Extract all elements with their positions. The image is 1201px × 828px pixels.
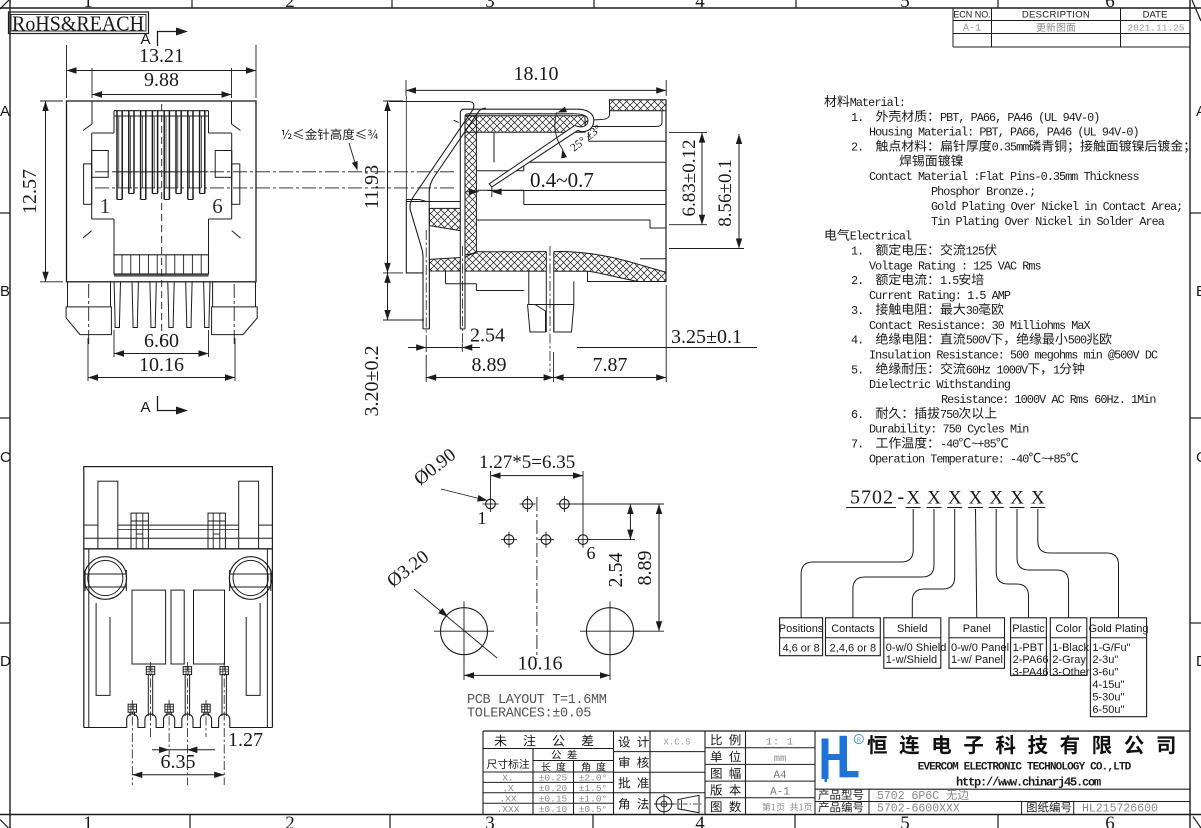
dimension 13.21 xyxy=(66,45,68,98)
svg-text:3-PA46: 3-PA46 xyxy=(1013,667,1049,679)
svg-text:3-6u": 3-6u" xyxy=(1092,667,1118,679)
svg-text:2.54: 2.54 xyxy=(470,325,505,347)
svg-text:Insulation Resistance: 500 meg: Insulation Resistance: 500 megohms min @… xyxy=(869,348,1158,362)
svg-text:±0.10: ±0.10 xyxy=(539,804,568,815)
svg-text:7.87: 7.87 xyxy=(593,354,628,376)
svg-text:13.21: 13.21 xyxy=(139,45,184,67)
front view lower comb ladder xyxy=(114,255,209,274)
dimension 6.83±0.12 xyxy=(669,132,707,134)
svg-text:Contacts: Contacts xyxy=(831,623,875,635)
projection symbol xyxy=(656,796,672,812)
svg-text:3.25±0.1: 3.25±0.1 xyxy=(671,326,742,348)
ECN row text 更新图面 xyxy=(1036,23,1045,32)
svg-text:Gold Plating Over Nickel in Co: Gold Plating Over Nickel in Contact Area… xyxy=(931,200,1182,214)
contact U bend inner and spring xyxy=(489,114,588,187)
section view under-slab step xyxy=(445,271,447,284)
contact spring tip cap xyxy=(491,187,493,197)
svg-text:D: D xyxy=(1196,653,1201,670)
svg-text:±0.15: ±0.15 xyxy=(539,793,568,804)
svg-text:4,6 or 8: 4,6 or 8 xyxy=(782,642,819,654)
product rows xyxy=(818,789,828,800)
front view latch window left xyxy=(92,151,109,178)
dimension 2.54 pcb xyxy=(570,503,635,505)
logo registered mark xyxy=(854,734,863,743)
svg-text:X: X xyxy=(927,488,941,509)
svg-text:1.: 1. xyxy=(851,245,863,259)
svg-text:Current Rating: 1.5 AMP: Current Rating: 1.5 AMP xyxy=(869,289,1011,303)
section view right back wall xyxy=(665,100,667,282)
svg-text:9.88: 9.88 xyxy=(144,69,179,91)
svg-text:Durability: 750 Cycles Min: Durability: 750 Cycles Min xyxy=(869,423,1029,437)
svg-text:5702 6P6C: 5702 6P6C xyxy=(877,790,939,803)
pin2 centerline xyxy=(462,246,464,344)
svg-text:Color: Color xyxy=(1055,623,1082,635)
front view link centerlines xyxy=(95,171,455,173)
svg-text:http://www.chinarj45.com: http://www.chinarj45.com xyxy=(956,776,1101,790)
svg-text:RoHS&REACH: RoHS&REACH xyxy=(12,12,144,36)
svg-text:3: 3 xyxy=(485,813,495,828)
sign table xyxy=(614,751,706,753)
svg-text:0.4~0.7: 0.4~0.7 xyxy=(530,168,594,192)
svg-text:10.16: 10.16 xyxy=(139,354,184,376)
dimension 10.16 pcb xyxy=(463,657,465,680)
svg-text:11.93: 11.93 xyxy=(361,165,383,209)
rear view scalloped bottom edge xyxy=(84,714,273,728)
ordering boxes xyxy=(780,618,823,656)
svg-text:2,4,6 or 8: 2,4,6 or 8 xyxy=(830,642,876,654)
contact U bend white mask xyxy=(489,109,594,187)
section view front flange xyxy=(405,96,407,200)
scale table xyxy=(705,747,815,749)
front view cavity side walls xyxy=(91,133,93,219)
svg-text:60Hz 1000V: 60Hz 1000V xyxy=(966,363,1029,377)
svg-text:D: D xyxy=(0,653,11,670)
dimension 6.60 xyxy=(113,330,115,357)
svg-text:A4: A4 xyxy=(773,770,787,782)
svg-text:2-3u": 2-3u" xyxy=(1092,654,1118,666)
svg-text:PBT, PA66, PA46 (UL 94V-0): PBT, PA66, PA46 (UL 94V-0) xyxy=(940,111,1099,125)
svg-text:~+85: ~+85 xyxy=(1041,452,1066,466)
svg-text:5: 5 xyxy=(900,0,910,12)
svg-text:±1.5°: ±1.5° xyxy=(579,783,608,794)
svg-text:Plastic: Plastic xyxy=(1012,623,1045,635)
svg-text:X: X xyxy=(989,488,1003,509)
svg-text:6.: 6. xyxy=(851,408,863,422)
svg-text:30: 30 xyxy=(966,304,979,318)
svg-text:R: R xyxy=(856,737,861,744)
svg-text:8.89: 8.89 xyxy=(472,354,507,376)
front view bottom teeth xyxy=(114,282,120,328)
svg-text:6.83±0.12: 6.83±0.12 xyxy=(679,140,700,217)
svg-text:.X: .X xyxy=(502,783,514,794)
svg-text:DESCRIPTION: DESCRIPTION xyxy=(1022,10,1090,21)
svg-text:18.10: 18.10 xyxy=(514,63,559,85)
svg-text:4: 4 xyxy=(695,813,705,828)
svg-text:A: A xyxy=(1196,103,1201,120)
dimension 10.16 xyxy=(87,338,89,381)
svg-text:-40: -40 xyxy=(940,438,959,452)
svg-text:1.27*5=6.35: 1.27*5=6.35 xyxy=(479,452,575,473)
svg-text:2.: 2. xyxy=(851,141,863,155)
svg-text:1.: 1. xyxy=(851,111,863,125)
svg-text:Electrical: Electrical xyxy=(850,230,912,244)
rear view lower body xyxy=(83,549,85,728)
rear pins long row xyxy=(146,667,154,675)
rear pins centerlines xyxy=(150,662,152,737)
svg-text:X: X xyxy=(906,488,920,509)
dimension 12.57 xyxy=(40,100,63,102)
svg-text:6.35: 6.35 xyxy=(161,751,196,773)
svg-text:X.: X. xyxy=(502,773,513,784)
rear view outline xyxy=(84,467,273,549)
section view bottom right step xyxy=(588,271,639,281)
svg-text:Panel: Panel xyxy=(963,623,991,635)
rear view screw right xyxy=(229,557,272,600)
svg-text:HL215726600: HL215726600 xyxy=(1082,803,1158,816)
svg-text:6.60: 6.60 xyxy=(144,330,179,352)
svg-text:2.54: 2.54 xyxy=(605,553,627,588)
svg-text:1: 1 xyxy=(83,0,93,12)
svg-text:Gold Plating: Gold Plating xyxy=(1089,623,1149,635)
rear view top inner posts xyxy=(98,481,118,549)
latch centerline xyxy=(549,246,551,372)
dimension 11.93 xyxy=(383,100,403,102)
sheet border xyxy=(9,0,11,828)
pcb small holes row2 xyxy=(504,535,514,545)
company name xyxy=(867,735,886,754)
svg-text:A: A xyxy=(140,31,150,48)
svg-text:0-w/0 Panel: 0-w/0 Panel xyxy=(951,642,1009,654)
tolerance table xyxy=(483,748,614,750)
svg-text:3.20±0.2: 3.20±0.2 xyxy=(361,346,383,417)
section view hatched housing xyxy=(465,116,585,133)
svg-text:±0.25: ±0.25 xyxy=(539,773,568,784)
section view pin channels white xyxy=(423,203,429,329)
svg-text:Contact Resistance: 30 Millioh: Contact Resistance: 30 Milliohms MaX xyxy=(869,319,1091,333)
dimension 25 deg xyxy=(555,112,563,150)
svg-text:1: 1 xyxy=(100,194,111,218)
rear view windows xyxy=(132,590,166,664)
note leader xyxy=(349,143,356,166)
svg-text:A: A xyxy=(140,399,150,416)
material electrical notes xyxy=(824,95,836,107)
svg-text:1-PBT: 1-PBT xyxy=(1013,642,1044,654)
pcb small holes row1 xyxy=(486,499,496,509)
dimension 9.88 xyxy=(91,68,93,98)
svg-text:8.56±0.1: 8.56±0.1 xyxy=(715,159,736,226)
svg-text:X: X xyxy=(948,488,962,509)
svg-text:4-15u": 4-15u" xyxy=(1092,679,1124,691)
svg-text:C: C xyxy=(0,449,11,466)
svg-text:3-Other: 3-Other xyxy=(1052,667,1090,679)
svg-text:500: 500 xyxy=(1068,334,1087,348)
svg-text:6-50u": 6-50u" xyxy=(1092,704,1124,716)
zone ticks bottom xyxy=(189,815,191,828)
front view mouth upper walls xyxy=(91,101,93,124)
svg-text:2: 2 xyxy=(285,813,295,828)
dimension 8.89 pcb xyxy=(570,503,664,505)
svg-text:7.: 7. xyxy=(851,438,863,452)
ECN revision table xyxy=(952,8,954,47)
svg-text:ECN NO.: ECN NO. xyxy=(953,10,991,20)
svg-text:X: X xyxy=(1010,488,1024,509)
svg-text:Material:: Material: xyxy=(850,96,905,110)
svg-text:2-PA66: 2-PA66 xyxy=(1013,654,1049,666)
svg-text:Operation Temperature: -40: Operation Temperature: -40 xyxy=(869,452,1029,466)
rear view mid lines xyxy=(84,537,273,539)
svg-text:Resistance: 1000V AC Rms 60Hz.: Resistance: 1000V AC Rms 60Hz. 1Min xyxy=(941,393,1156,407)
front view leg centerlines xyxy=(88,284,90,345)
dimension 7.87 section xyxy=(553,352,555,382)
svg-text:1: 1: 1: 1 xyxy=(766,738,794,749)
svg-text:10.16: 10.16 xyxy=(518,653,563,675)
front view cavity ledge xyxy=(114,171,209,173)
pcb large hole left xyxy=(441,608,488,655)
svg-text:B: B xyxy=(1196,283,1201,300)
svg-text:±0.5°: ±0.5° xyxy=(579,804,608,815)
svg-text:5702-6600XXX: 5702-6600XXX xyxy=(877,803,960,816)
pcb centerline xyxy=(536,497,538,659)
svg-text:A-1: A-1 xyxy=(963,24,981,35)
company logo HL xyxy=(822,736,859,782)
svg-text:~+85: ~+85 xyxy=(971,438,996,452)
latch post pin channel xyxy=(545,252,547,333)
dimension 8.89 section xyxy=(425,355,427,382)
contact top run xyxy=(460,109,577,329)
zone ticks sides xyxy=(0,212,10,214)
svg-text:2-Gray: 2-Gray xyxy=(1052,654,1086,666)
svg-text:mm: mm xyxy=(774,753,787,765)
rear view crossbar xyxy=(118,524,239,526)
section view bottom latch post xyxy=(528,271,530,305)
svg-text:5-30u": 5-30u" xyxy=(1092,691,1124,703)
svg-text:Contact Material :Flat Pins-0.: Contact Material :Flat Pins-0.35mm Thick… xyxy=(869,170,1140,184)
svg-text:2.: 2. xyxy=(851,274,863,288)
dimension 1.27*5=6.35 xyxy=(490,471,492,497)
rear view clips xyxy=(131,513,148,549)
svg-text:Dielectric Withstanding: Dielectric Withstanding xyxy=(869,378,1011,392)
svg-text:1.27: 1.27 xyxy=(228,729,263,751)
pin1 centerline xyxy=(425,230,427,344)
svg-text:750: 750 xyxy=(940,408,959,422)
front view right leg xyxy=(212,282,214,307)
rear pins short row xyxy=(128,704,136,712)
svg-text:2: 2 xyxy=(285,0,295,12)
svg-text:Voltage Rating : 125 VAC Rms: Voltage Rating : 125 VAC Rms xyxy=(869,259,1041,273)
svg-text:0-w/0 Shield: 0-w/0 Shield xyxy=(886,642,947,654)
dimension 2.54 section xyxy=(425,344,427,352)
ordering connector curves xyxy=(801,509,913,618)
svg-text:±0.20: ±0.20 xyxy=(539,783,568,794)
front view latch window right xyxy=(215,151,232,178)
svg-text:Housing Material: PBT, PA66, P: Housing Material: PBT, PA66, PA46 (UL 94… xyxy=(869,126,1139,140)
svg-text:1: 1 xyxy=(478,508,487,528)
svg-text:EVERCOM ELECTRONIC TECHNOLOGY: EVERCOM ELECTRONIC TECHNOLOGY CO.,LTD xyxy=(918,762,1132,774)
svg-text:X.C.S: X.C.S xyxy=(663,738,690,748)
svg-text:1: 1 xyxy=(1053,363,1060,377)
dimension 6.35 rear xyxy=(132,774,224,776)
svg-text:12.57: 12.57 xyxy=(19,169,41,214)
svg-text:TOLERANCES:±0.05: TOLERANCES:±0.05 xyxy=(467,707,591,722)
company block xyxy=(815,788,1190,790)
front view contact comb xyxy=(114,110,209,112)
svg-text:1-w/ Panel: 1-w/ Panel xyxy=(951,654,1003,666)
svg-text:B: B xyxy=(0,283,10,300)
svg-text:5702: 5702 xyxy=(850,487,894,509)
svg-text:Shield: Shield xyxy=(897,623,928,635)
note half gold pin height xyxy=(282,130,292,139)
front view left leg xyxy=(67,282,69,307)
contact U bend outer xyxy=(492,109,594,187)
svg-text:1-Black: 1-Black xyxy=(1052,642,1089,654)
svg-text:.XXX: .XXX xyxy=(497,804,520,815)
svg-text:Positions: Positions xyxy=(779,623,824,635)
svg-text:1.5: 1.5 xyxy=(940,274,959,288)
svg-text:6: 6 xyxy=(212,194,223,218)
svg-text:0.35mm: 0.35mm xyxy=(992,141,1030,155)
svg-text:X: X xyxy=(1031,488,1045,509)
pcb large hole right xyxy=(587,608,634,655)
svg-text:-: - xyxy=(898,486,905,508)
svg-text:4.: 4. xyxy=(851,334,863,348)
section view pin2 bottom cap xyxy=(460,328,465,330)
section view top edge and shield tab xyxy=(389,101,468,103)
svg-text:Tin Plating Over Nickel in Sol: Tin Plating Over Nickel in Solder Area xyxy=(931,215,1165,229)
svg-text:DATE: DATE xyxy=(1143,10,1168,21)
svg-text:1-G/Fu": 1-G/Fu" xyxy=(1092,642,1130,654)
svg-text:500V: 500V xyxy=(966,334,992,348)
dimension 3.20±0.2 xyxy=(383,272,403,274)
svg-text:1-w/Shield: 1-w/Shield xyxy=(886,654,937,666)
svg-text:5.: 5. xyxy=(851,363,863,377)
svg-text:±1.0°: ±1.0° xyxy=(579,793,608,804)
svg-text:X: X xyxy=(969,488,983,509)
dimension 1.27 rear xyxy=(152,749,215,751)
RoHS&REACH label xyxy=(9,12,149,34)
svg-text:A-1: A-1 xyxy=(770,787,790,799)
section view back cavity steps xyxy=(524,161,666,163)
svg-text:A: A xyxy=(0,103,10,120)
svg-text:2021.11.25: 2021.11.25 xyxy=(1127,23,1184,34)
svg-text:6: 6 xyxy=(1105,0,1115,12)
title block frame xyxy=(483,730,1190,732)
svg-text:8.89: 8.89 xyxy=(634,551,656,586)
svg-text:1: 1 xyxy=(83,813,93,828)
svg-text:±2.0°: ±2.0° xyxy=(579,773,608,784)
dimension 8.56±0.1 xyxy=(669,248,744,250)
svg-text:3: 3 xyxy=(485,0,495,12)
front view outline xyxy=(67,101,257,282)
dimension 18.10 xyxy=(405,80,407,96)
svg-text:.XX: .XX xyxy=(499,793,516,804)
svg-text:125: 125 xyxy=(966,245,985,259)
rear view side strips xyxy=(88,549,90,728)
front view centerline xyxy=(161,104,163,345)
rear view screw left xyxy=(84,557,127,600)
svg-text:3.: 3. xyxy=(851,304,863,318)
svg-text:C: C xyxy=(1196,449,1201,466)
svg-text:Phosphor Bronze.;: Phosphor Bronze.; xyxy=(931,185,1035,199)
zone ticks top xyxy=(191,0,193,8)
svg-text:6: 6 xyxy=(587,543,596,563)
svg-text:4: 4 xyxy=(695,0,705,12)
